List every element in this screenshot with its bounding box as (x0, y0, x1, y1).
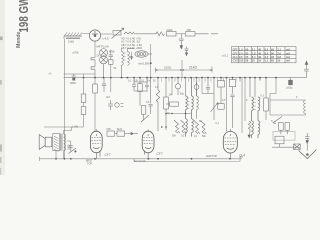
svg-text:205: 205 (187, 28, 192, 32)
svg-text:x 4,5: x 4,5 (102, 37, 109, 41)
capacitor C3 on rail (72, 74, 76, 80)
wire x226.5 drop to V4 (226, 78, 228, 129)
label DW TauS (107, 128, 123, 131)
svg-text:a/7W: a/7W (73, 51, 80, 55)
loudspeaker LS1 cone (39, 135, 52, 150)
main HT rail (64, 77, 307, 79)
svg-text:6800: 6800 (70, 81, 76, 85)
capacitor boxes C14 C15 (279, 123, 290, 135)
arrowhead down near V4 right (248, 121, 251, 138)
dimension line 21k (182, 67, 213, 73)
potentiometer arrow P3 (273, 117, 282, 124)
wire R7 to V2 (94, 93, 96, 131)
capacitor C4 drop from top wire (184, 47, 188, 56)
electrolytic cap C13 dark on rail (289, 78, 293, 85)
svg-text:1M: 1M (147, 80, 150, 83)
grouping box around C14 C15 (273, 132, 295, 141)
voltage table cell text (233, 48, 291, 63)
resistor R3 box (186, 32, 196, 36)
scan edge smudge left bottom (0, 157, 2, 163)
svg-text:6,4: 6,4 (252, 55, 256, 59)
resistor R17 vertical box (264, 78, 269, 120)
registration cross mark (49, 72, 52, 75)
mains aerial symbol V (299, 150, 317, 159)
wire S1 to resistor R1 (134, 33, 156, 35)
svg-text:mA: mA (286, 51, 290, 55)
wire horizontal y127 (44, 126, 84, 128)
mains switch box B1 (275, 136, 284, 147)
svg-text:4k7: 4k7 (106, 95, 111, 99)
wire under tubes y161 (134, 160, 240, 162)
svg-text:mit 0,5W: mit 0,5W (138, 62, 149, 66)
svg-text:4µ: 4µ (180, 46, 183, 50)
wire tie y82 (134, 81, 147, 83)
diagonal resistor R18 (194, 121, 200, 134)
node arrow to HT rail (304, 61, 309, 78)
svg-text:2000: 2000 (167, 28, 173, 32)
svg-text:1,1: 1,1 (265, 59, 269, 63)
wire tie y93.5 (202, 93, 214, 95)
label under diagonals (172, 135, 185, 138)
resistor R11 box on x166 (164, 78, 169, 130)
IF transformer T4 primary coils (185, 78, 193, 119)
wire V4 bottom link (134, 157, 240, 161)
resistor R1 zigzag (156, 32, 165, 36)
electrolytic circle C18 (194, 82, 199, 96)
box R14 (229, 78, 235, 94)
diagonal resistor R15 (174, 120, 180, 133)
wire upper sub-rail left (64, 73, 96, 75)
IF transformer T2 coils (121, 49, 133, 78)
dimension line 220 ohm (155, 60, 182, 78)
IF transformer T4 secondary coils (185, 119, 193, 137)
svg-text:1,8: 1,8 (252, 51, 256, 55)
svg-text:1,4W: 1,4W (72, 125, 79, 129)
wire x242 drop (240, 78, 242, 133)
svg-text:mA: mA (286, 48, 290, 52)
svg-text:MFT0,5A: MFT0,5A (97, 45, 109, 49)
svg-text:Mende: Mende (16, 31, 22, 48)
screen resistor box R13 (218, 78, 225, 104)
svg-text:1M: 1M (169, 94, 172, 97)
output transformer T7 (53, 134, 66, 152)
scan edge smudge left middle (0, 80, 2, 85)
svg-text:a 0,1: a 0,1 (222, 54, 229, 58)
svg-text:CF7: CF7 (157, 152, 163, 156)
switch S1 with fuse (112, 28, 135, 38)
svg-text:0,4: 0,4 (265, 48, 269, 52)
bottom chassis rail (40, 158, 243, 160)
winding table text block (121, 36, 142, 50)
resistor R8 box (138, 78, 142, 106)
right cluster: output transformer T6 coils (250, 78, 260, 121)
svg-text:4,2: 4,2 (265, 55, 269, 59)
junction dots mid cluster (161, 113, 186, 128)
svg-text:105: 105 (239, 59, 244, 63)
wire V1 cathode down (94, 41, 96, 57)
oscillator coil T3 oval can (135, 51, 152, 57)
svg-text:0,6: 0,6 (265, 51, 269, 55)
capacitor C11 on x208 (206, 78, 210, 94)
tube V2 IF pentode (90, 129, 102, 159)
wire x172 short (171, 78, 173, 95)
resistor R2 box (167, 32, 177, 36)
node A antenna down-lead (64, 39, 66, 127)
tube V1 (tuning indicator) (89, 30, 100, 41)
svg-text:CY2: CY2 (233, 59, 239, 63)
comb of connection stubs below rail (162, 78, 236, 82)
scattered value labels (97, 55, 298, 126)
wire R6 down to bus (83, 103, 85, 128)
wire x110.8 drop (110, 78, 112, 92)
svg-text:2,6: 2,6 (277, 51, 281, 55)
svg-text:CF7: CF7 (233, 48, 238, 52)
label under R18 R19 (194, 135, 207, 138)
capacitor C9 (148, 78, 152, 114)
svg-text:1,9: 1,9 (239, 48, 243, 52)
resistor R4 small box (109, 60, 113, 65)
wire V1 to switch S1 (101, 33, 112, 35)
svg-text:9,8: 9,8 (277, 55, 281, 59)
resistor R7 box (93, 84, 98, 93)
tube V3 demodulator (142, 129, 154, 159)
wire C2/R4 to rail (110, 64, 112, 77)
T6 secondary coils (251, 121, 260, 138)
svg-text:198 GW: 198 GW (18, 0, 32, 32)
scan edge smudge left lower (0, 145, 2, 152)
svg-text:CF7: CF7 (233, 51, 238, 55)
capacitor C12 (230, 94, 234, 128)
coil T5 column (196, 78, 198, 119)
capacitor C16 on x307 (305, 133, 309, 151)
svg-text:TOP: TOP (87, 163, 92, 166)
svg-text:10kΩ: 10kΩ (68, 40, 74, 44)
capacitor C2 (109, 50, 113, 60)
svg-text:AMZ/TOP: AMZ/TOP (206, 155, 217, 158)
node antenna lead to bottom rail (64, 127, 66, 159)
svg-text:CL4: CL4 (239, 154, 245, 158)
potentiometer arrow P1 (141, 115, 149, 122)
wire antenna to tube V1 (64, 34, 90, 40)
junction dot at 150.5,63 (150, 62, 152, 64)
svg-text:50µ: 50µ (180, 93, 185, 96)
antenna coil L1 (64, 33, 82, 39)
resistor R9 box (141, 106, 145, 121)
resistor R5 box (81, 94, 86, 103)
pot arrow P4 (69, 148, 77, 154)
svg-text:mA: mA (286, 59, 290, 63)
capacitor C17 near speaker (69, 146, 73, 152)
label small arrow under T3 (130, 52, 132, 59)
capacitor C1 with arrow to ground (179, 34, 184, 49)
svg-text:2,4: 2,4 (239, 51, 243, 55)
resistor R20 horizontal box (166, 102, 179, 106)
fuse box with X (294, 144, 301, 150)
coupling boxes between V2 V3 (107, 131, 128, 136)
resistor R6 box (81, 107, 86, 115)
capacitor C6 pair with core (108, 100, 124, 110)
wire junction vertical x150 (150, 44, 152, 78)
wire bottom-right horizontal (272, 146, 300, 148)
svg-text:2x50µ: 2x50µ (286, 87, 293, 90)
wire x202 (201, 78, 203, 94)
svg-text:TauS: TauS (117, 128, 123, 131)
capacitor C8 (145, 78, 149, 92)
svg-text:2,1: 2,1 (252, 48, 256, 52)
wire R2 to R3 (176, 33, 185, 35)
wire tie y113.5 (166, 113, 192, 115)
wire x158 with zigzag resistor R10 (156, 78, 160, 131)
wire loop to mains coil L2 (270, 78, 306, 115)
wire x245 drop (244, 78, 246, 121)
wire x95 drop to tube V2 (94, 78, 96, 84)
tube V4 output pentode (223, 129, 237, 159)
tiny label row under rail (128, 80, 156, 83)
scan shading left edge (0, 0, 5, 175)
svg-text:5000: 5000 (68, 144, 71, 150)
voltage table grid (232, 47, 297, 63)
arrow A1 between tubes (128, 132, 138, 134)
svg-text:CL4: CL4 (233, 55, 238, 59)
potentiometer P2 arrow on x214 (211, 78, 219, 120)
label under V2 (86, 160, 93, 166)
electrolytic C10 circle (175, 78, 180, 95)
svg-text:220Ω: 220Ω (164, 66, 172, 70)
switch contact K2 (91, 67, 95, 78)
junction dots on HT rail (83, 77, 277, 79)
bandfilter T1 crossed circles (100, 49, 108, 78)
scan edge smudge left top (0, 37, 3, 41)
svg-text:9,5: 9,5 (239, 55, 243, 59)
wire tie y92 (134, 90, 147, 92)
diagonal resistor R16 (181, 120, 187, 133)
svg-text:21kΩ: 21kΩ (189, 65, 197, 69)
scan edge smudge bottom-left corner (0, 168, 1, 175)
svg-text:w: w (271, 120, 273, 123)
bottom rail end hook (39, 157, 41, 161)
switch contact K1 (91, 58, 95, 67)
resistor R12 box small (218, 104, 224, 110)
wire x83.5 drop (83, 74, 85, 94)
wires speaker to rail (56, 127, 72, 159)
svg-text:CF7: CF7 (105, 153, 111, 157)
svg-text:mA: mA (286, 55, 290, 59)
wire R3 onward (195, 33, 218, 35)
svg-text:470k: 470k (109, 50, 115, 54)
svg-text:3,1: 3,1 (277, 48, 281, 52)
capacitor C5 on x104 (102, 78, 106, 92)
capacitor C7 (132, 78, 136, 91)
diagonal resistor R19 (201, 121, 207, 134)
junction dots bottom rail (55, 158, 231, 160)
svg-text:AB 7.0-3.4E +80Ω: AB 7.0-3.4E +80Ω (121, 46, 142, 50)
